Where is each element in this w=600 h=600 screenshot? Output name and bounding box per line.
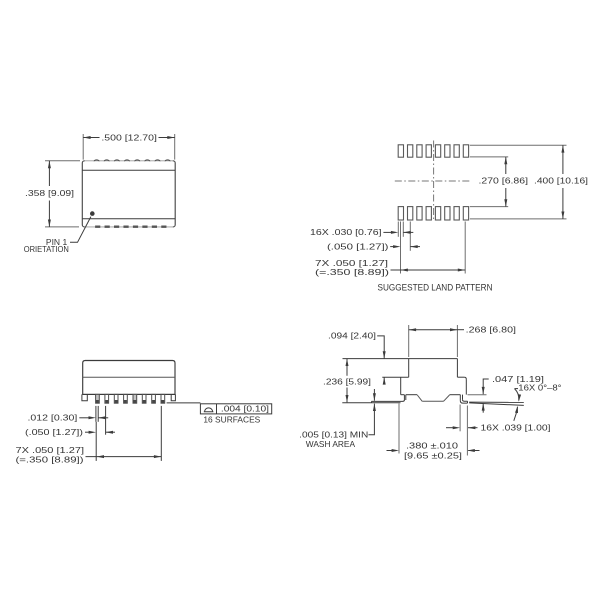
dimension 7X .050 (=.350) pad span: [315, 258, 465, 277]
svg-text:.268 [6.80]: .268 [6.80]: [466, 325, 516, 335]
dimension .094 [2.40] step height: [328, 330, 386, 384]
svg-text:.380 ±.010: .380 ±.010: [406, 440, 458, 450]
land pattern lower extension lines: [398, 222, 465, 274]
dimension .400 [10.16] outer row span: [534, 145, 588, 219]
dimension .500 [12.70] top width: [83, 132, 175, 159]
dimension .380 +/-.010 lead span: [387, 404, 480, 461]
label 16 SURFACES: [203, 415, 260, 425]
land pattern top pad row: [398, 145, 468, 157]
label SUGGESTED LAND PATTERN: [378, 283, 493, 293]
svg-text:16 SURFACES: 16 SURFACES: [203, 415, 260, 425]
svg-text:16X .030 [0.76]: 16X .030 [0.76]: [310, 227, 382, 237]
profile view body outline: [343, 359, 467, 402]
svg-text:.270 [6.86]: .270 [6.86]: [479, 175, 529, 185]
land pattern bottom pad row: [398, 207, 468, 220]
svg-text:.358 [9.09]: .358 [9.09]: [25, 188, 74, 198]
top view hidden pin dashes bottom edge: [95, 225, 166, 227]
dimension .005 [0.13] MIN wash area: [299, 389, 376, 449]
svg-text:(=.350 [8.89]): (=.350 [8.89]): [16, 455, 84, 465]
pin 1 orientation dot: [90, 211, 95, 216]
dimension 16X .030 [0.76] pad width: [310, 227, 413, 237]
dimension .358 [9.09] side height: [25, 161, 80, 227]
dimension (.050 [1.27]) pin pitch: [25, 406, 115, 437]
dimension .047 [1.19] lead height: [468, 374, 545, 413]
svg-text:.004 [0.10]: .004 [0.10]: [221, 404, 269, 414]
svg-text:(=.350 [8.89]): (=.350 [8.89]): [315, 267, 389, 277]
top view package body: [82, 161, 175, 227]
svg-text:(.050 [1.27]): (.050 [1.27]): [327, 241, 389, 251]
top view hidden pin dashes top edge: [94, 160, 170, 161]
svg-text:16X .039 [1.00]: 16X .039 [1.00]: [481, 423, 551, 433]
front view left end tab: [82, 394, 87, 400]
dimension .270 [6.86] inner row gap: [479, 157, 529, 207]
svg-text:.500 [12.70]: .500 [12.70]: [101, 132, 156, 142]
svg-text:WASH AREA: WASH AREA: [306, 439, 356, 449]
front view pins: [96, 394, 165, 403]
svg-text:.236 [5.99]: .236 [5.99]: [323, 377, 371, 387]
label PIN 1 ORIETATION: [24, 237, 69, 254]
svg-text:SUGGESTED LAND PATTERN: SUGGESTED LAND PATTERN: [378, 283, 493, 293]
front view right end tab: [171, 394, 175, 400]
svg-text:(.050 [1.27]): (.050 [1.27]): [25, 427, 83, 437]
svg-text:.400 [10.16]: .400 [10.16]: [534, 175, 588, 185]
dimension .012 [0.30] pin width: [28, 406, 109, 423]
seating plane leader to flatness callout: [167, 402, 201, 404]
dimension 16X .039 [1.00] foot length: [446, 405, 551, 456]
svg-text:.012 [0.30]: .012 [0.30]: [28, 413, 78, 423]
svg-text:16X 0°–8°: 16X 0°–8°: [518, 383, 561, 393]
pin 1 leader line: [70, 217, 91, 243]
svg-text:[9.65 ±0.25]: [9.65 ±0.25]: [404, 450, 462, 460]
land pattern vertical centerline: [433, 141, 435, 222]
svg-text:7X .050 [1.27]: 7X .050 [1.27]: [16, 445, 85, 455]
dimension .268 [6.80] top width: [409, 325, 516, 357]
profile left lead: [342, 395, 406, 403]
angular note 16X 0-8 deg with leader: [514, 383, 562, 421]
svg-text:ORIETATION: ORIETATION: [24, 244, 69, 254]
flatness feature control frame: [200, 404, 271, 414]
land pattern horizontal centerline: [395, 180, 471, 182]
svg-text:.005 [0.13] MIN: .005 [0.13] MIN: [299, 430, 368, 440]
dimension (.050 [1.27]) pad pitch: [327, 241, 420, 251]
dimension .236 [5.99] body height: [323, 359, 371, 403]
dimension 7X .050 (=.350) pin span: [16, 406, 162, 465]
profile right lead: [460, 395, 467, 404]
land pattern right extension lines: [470, 145, 567, 219]
lead angle reference lines 0-8 deg: [469, 402, 524, 405]
svg-text:.094 [2.40]: .094 [2.40]: [328, 330, 376, 340]
front view package body: [83, 361, 175, 395]
